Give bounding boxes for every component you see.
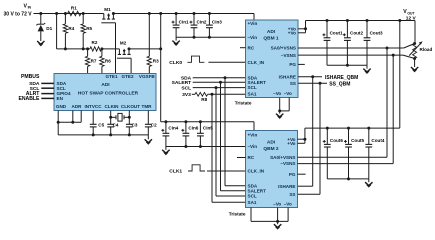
wire SA1 bus — [208, 93, 246, 95]
wire QBM1 RC stub — [240, 47, 246, 49]
svg-text:R7: R7 — [91, 59, 97, 64]
op-amp U3 ADI QBM 2 module — [246, 131, 298, 208]
svg-text:C5: C5 — [98, 123, 104, 128]
svg-text:M1: M1 — [104, 7, 111, 12]
svg-text:RC: RC — [248, 155, 255, 160]
svg-text:QBM 2: QBM 2 — [263, 146, 279, 152]
junction dots QBM2 +Vo rail — [326, 127, 371, 130]
wire PMBUS SDA — [41, 82, 54, 84]
capacitor Cout5 — [344, 128, 365, 179]
wire second rail (hot-swap output) — [57, 48, 161, 50]
svg-text:Cout2: Cout2 — [350, 31, 363, 36]
resistor R4 — [63, 14, 75, 49]
resistor R7 — [85, 49, 97, 74]
junction dots ground rail — [92, 133, 131, 136]
svg-text:SALERT: SALERT — [172, 80, 192, 86]
wire CLK1 to QBM2 CLK_IN — [207, 170, 246, 172]
svg-text:CLK_IN: CLK_IN — [248, 169, 265, 174]
junction dot +Vo join — [304, 27, 307, 30]
svg-text:SA1: SA1 — [248, 200, 257, 205]
capacitor C4 — [107, 111, 119, 135]
capacitor C5 — [90, 111, 105, 135]
svg-text:R3: R3 — [153, 59, 159, 64]
svg-text:SCL: SCL — [248, 194, 257, 199]
wire QBM1 -Vo drops — [278, 98, 289, 114]
svg-text:Rload: Rload — [420, 47, 433, 52]
capacitor Cout2 — [343, 21, 364, 66]
node SDA net — [181, 75, 192, 81]
wire GND pin drop — [57, 111, 59, 135]
svg-text:SCL: SCL — [57, 86, 66, 91]
node CLK1 — [169, 165, 205, 175]
svg-text:RC: RC — [248, 45, 255, 50]
resistor R5 — [81, 14, 93, 49]
wire SCL drop to QBM2 — [216, 88, 246, 196]
ground below C2 — [145, 135, 152, 144]
wire QBM2 -VSNS — [298, 55, 394, 164]
wire SS link to QBM2 — [298, 83, 321, 194]
resistor R3 — [147, 14, 159, 74]
node Tristate label 1 — [235, 100, 252, 105]
svg-text:Cin3: Cin3 — [212, 19, 222, 24]
wire PMBUS SCL — [41, 87, 54, 89]
ground on -VIN rail — [172, 37, 179, 45]
diode D1 (zener) — [36, 14, 52, 42]
wire QBM2 +VSNS — [298, 48, 388, 157]
ground below QBM2 — [274, 224, 281, 228]
wire PMBUS ENABLE — [41, 97, 54, 99]
transistor M1 — [101, 7, 115, 23]
node ISHARE_QBM — [298, 75, 358, 81]
wire SALERT bus — [193, 81, 246, 83]
svg-text:ADI: ADI — [101, 82, 110, 88]
svg-text:SS_QBM: SS_QBM — [329, 81, 350, 87]
svg-text:VGSFB: VGSFB — [139, 74, 156, 79]
svg-text:PMBUS: PMBUS — [21, 74, 40, 80]
svg-text:3V3: 3V3 — [182, 92, 191, 98]
junction dots GND/ADR rail — [57, 121, 75, 124]
junction dots VOUT rail — [326, 19, 402, 22]
wire VIN top rail — [34, 14, 255, 21]
svg-text:R1: R1 — [71, 5, 77, 10]
svg-text:Cout3: Cout3 — [370, 31, 383, 36]
node 3V3 — [182, 92, 191, 98]
svg-text:+Vin: +Vin — [248, 21, 258, 26]
svg-text:CLKOUT: CLKOUT — [121, 104, 140, 109]
svg-text:30 V to 72 V: 30 V to 72 V — [4, 12, 33, 18]
ground below D1 — [37, 41, 44, 45]
transistor M2 — [117, 40, 131, 58]
svg-text:IN: IN — [28, 6, 32, 10]
svg-text:GTE2: GTE2 — [122, 74, 134, 79]
crystal Y1 — [111, 113, 130, 121]
svg-text:–Vin: –Vin — [248, 144, 258, 149]
op-amp U2 ADI QBM 1 module — [246, 20, 299, 98]
node VIN input terminal — [4, 4, 33, 18]
wire ADR pin drops — [58, 111, 81, 123]
capacitor Cout3 — [364, 21, 383, 66]
capacitor Cout1 — [323, 21, 344, 66]
wire SDA bus — [193, 77, 246, 79]
svg-text:ISHARE: ISHARE — [278, 184, 295, 189]
svg-text:OUT: OUT — [407, 11, 415, 15]
wire VOUT riser — [399, 21, 401, 129]
svg-text:Cin6: Cin6 — [188, 125, 198, 130]
svg-text:C4: C4 — [113, 123, 119, 128]
ground on QBM2 -VIN rail — [162, 147, 169, 155]
junction dot Cout456 rail — [347, 177, 350, 180]
svg-text:D1: D1 — [46, 26, 52, 31]
svg-text:HOT SWAP CONTROLLER: HOT SWAP CONTROLLER — [78, 91, 139, 97]
wire PMBUS ALRT — [41, 93, 54, 95]
svg-text:Tristate: Tristate — [235, 100, 252, 105]
wire QBM2 PG stub — [298, 173, 306, 175]
capacitor C2 — [145, 111, 157, 135]
svg-text:SCL: SCL — [248, 85, 257, 90]
wire QBM1 +Vo outputs — [298, 21, 306, 33]
junction dots QBM2 +VIN rail — [164, 120, 202, 123]
svg-text:Cout4: Cout4 — [371, 138, 384, 143]
svg-text:CLK1: CLK1 — [169, 169, 182, 175]
svg-text:PG: PG — [289, 172, 296, 177]
svg-text:Cout5: Cout5 — [351, 138, 364, 143]
svg-text:R5: R5 — [86, 26, 92, 31]
svg-text:–Vo: –Vo — [284, 201, 292, 206]
svg-text:ADI: ADI — [267, 29, 276, 35]
junction dots on second rail — [64, 47, 162, 50]
ground below Cout4 — [365, 179, 372, 187]
wire VOUT rail — [306, 21, 416, 44]
svg-text:CLK0: CLK0 — [169, 60, 182, 66]
svg-text:–Vin: –Vin — [248, 35, 258, 40]
svg-text:R4: R4 — [68, 26, 74, 31]
svg-text:–Vo: –Vo — [273, 91, 281, 96]
capacitor C3 — [126, 111, 138, 135]
svg-text:–VSNS: –VSNS — [281, 53, 296, 58]
wire QBM2 -Vo drops — [251, 208, 288, 225]
resistor Rload — [409, 41, 432, 67]
junction dots -VIN rail — [193, 36, 211, 39]
svg-text:Tristate: Tristate — [229, 211, 246, 216]
wire M2 gate to GTE2 — [130, 58, 132, 73]
svg-text:Cin2: Cin2 — [197, 19, 207, 24]
node VOUT label — [403, 9, 416, 21]
wire Cout456 ground rail — [327, 178, 369, 180]
svg-text:ADI: ADI — [267, 140, 276, 146]
svg-text:ISHARE_QBM: ISHARE_QBM — [325, 75, 358, 81]
svg-text:Cout6: Cout6 — [330, 138, 343, 143]
svg-text:EN: EN — [57, 96, 64, 101]
svg-text:C3: C3 — [132, 123, 138, 128]
wire QBM2 -VIN rail — [166, 146, 246, 148]
svg-text:R2: R2 — [92, 40, 98, 45]
capacitor Cin2 — [190, 14, 207, 38]
svg-text:–Vo: –Vo — [284, 91, 292, 96]
junction dots Cout rail — [346, 64, 349, 67]
wire -VIN rail — [176, 36, 245, 38]
svg-text:+Vo: +Vo — [288, 31, 296, 36]
svg-text:GND: GND — [56, 104, 67, 109]
svg-text:SA0/+VSNS: SA0/+VSNS — [271, 46, 296, 51]
op-amp U1 hot swap controller block — [54, 74, 156, 111]
wire ISHARE link to QBM2 — [298, 77, 313, 186]
svg-text:+Vin: +Vin — [248, 133, 258, 138]
wire Cout ground rail — [327, 64, 367, 66]
wire QBM2 RC stub — [237, 157, 246, 159]
svg-text:CLKIN: CLKIN — [104, 104, 119, 109]
svg-text:ENABLE: ENABLE — [18, 96, 40, 102]
junction dot QBM2 +Vo join — [303, 138, 306, 141]
capacitor Cin4 — [161, 122, 178, 147]
junction dots crystal — [109, 116, 131, 119]
capacitor Cout6 — [323, 128, 344, 179]
svg-text:C2: C2 — [151, 123, 157, 128]
wire M1 gate to GTE1 — [115, 23, 117, 74]
ground below Cout3 — [363, 65, 370, 73]
wire QBM2 +VIN rail — [161, 122, 254, 131]
svg-text:–VSNS: –VSNS — [280, 161, 295, 166]
capacitor Cin1 — [172, 14, 189, 38]
svg-text:R6: R6 — [105, 59, 111, 64]
wire SDA drop to QBM2 — [225, 78, 246, 186]
svg-text:TMR: TMR — [142, 104, 153, 109]
svg-text:SS: SS — [290, 81, 296, 86]
capacitor Cin5 — [197, 122, 213, 147]
svg-text:SCL: SCL — [181, 85, 191, 91]
junction dots QBM2 -VIN rail — [184, 145, 202, 148]
svg-text:CLK_IN: CLK_IN — [248, 60, 265, 65]
svg-text:ADR: ADR — [72, 104, 83, 109]
junction dots sense taps — [386, 42, 417, 60]
svg-text:SS: SS — [289, 192, 295, 197]
wire QBM2 +Vo rail — [305, 127, 400, 129]
svg-text:Cin5: Cin5 — [203, 125, 213, 130]
junction dots on VIN rail — [39, 12, 211, 15]
resistor R8 — [192, 92, 208, 102]
svg-text:INTVCC: INTVCC — [84, 104, 102, 109]
svg-text:SA0/+VSNS: SA0/+VSNS — [270, 155, 295, 160]
svg-text:M2: M2 — [120, 40, 127, 45]
svg-text:12 V: 12 V — [406, 16, 417, 22]
svg-text:Cout1: Cout1 — [330, 31, 343, 36]
junction dots bus drops — [211, 76, 227, 96]
node PMBUS labels — [18, 74, 40, 102]
node SCL net — [181, 85, 191, 91]
wire CLK0 to CLK_IN — [208, 61, 245, 63]
wire +VSNS sense — [298, 44, 415, 49]
wire VIN drop to QBM2 feed — [160, 14, 162, 122]
svg-text:Cin1: Cin1 — [179, 19, 189, 24]
svg-text:SA1: SA1 — [248, 92, 257, 97]
svg-text:ISHARE: ISHARE — [279, 74, 296, 79]
svg-text:–Vo: –Vo — [273, 201, 281, 206]
wire QBM1 PG stub — [298, 63, 305, 65]
svg-text:+Vo: +Vo — [287, 141, 295, 146]
capacitor Cout4 — [365, 128, 384, 179]
wire QBM2 +Vo outputs — [298, 128, 305, 143]
wire VIN drop to second rail — [56, 14, 58, 49]
wire SCL bus — [193, 87, 246, 89]
resistor R6 — [100, 49, 112, 74]
wire -VSNS sense — [298, 55, 415, 58]
node Tristate label 2 — [229, 211, 246, 216]
svg-text:Cin4: Cin4 — [168, 125, 178, 130]
ground below Rload — [411, 67, 418, 71]
wire SA1 drop to QBM2 — [212, 94, 246, 202]
node SALERT net — [172, 80, 192, 86]
resistor R2 — [90, 40, 102, 51]
wire SALERT drop to QBM2 — [221, 82, 246, 191]
capacitor Cin6 — [181, 122, 198, 147]
node CLK0 — [169, 56, 204, 66]
wire controller ground rail — [58, 134, 148, 136]
svg-text:QBM 1: QBM 1 — [263, 36, 279, 42]
svg-text:R8: R8 — [201, 97, 207, 102]
ground below QBM1 — [276, 114, 283, 118]
capacitor Cin3 — [206, 14, 222, 38]
svg-text:GTE1: GTE1 — [106, 74, 118, 79]
node SS_QBM — [298, 81, 350, 87]
svg-text:PG: PG — [289, 62, 296, 67]
resistor R1 — [68, 5, 81, 15]
